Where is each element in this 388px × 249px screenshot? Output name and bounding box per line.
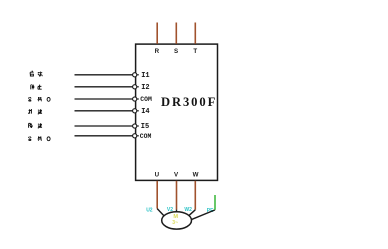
svg-text:I4: I4 (141, 108, 149, 116)
terminal COM (133, 97, 137, 101)
wire W output (194, 181, 196, 210)
wire input I1 (start) (75, 74, 133, 76)
wire R phase supply (156, 23, 158, 44)
label gong-gong-0 second (common) hand-drawn glyphs (28, 136, 50, 140)
svg-text:S: S (174, 48, 178, 55)
wire input COM2 (common) (75, 135, 133, 137)
wire motor lead W2 (189, 210, 195, 215)
terminal I1 (133, 73, 137, 77)
wire T phase supply (194, 23, 196, 44)
label jiang-su (speed down) hand-drawn glyphs (29, 123, 42, 128)
label qi-dong (start) hand-drawn glyphs (30, 71, 42, 76)
terminal I4 (133, 109, 137, 113)
label sheng-su (speed up) hand-drawn glyphs (28, 109, 42, 114)
svg-text:W: W (193, 172, 199, 179)
wire input I2 (stop) (75, 86, 133, 88)
label ting-zhi (stop) hand-drawn glyphs (31, 84, 42, 89)
wire PE green conductor (214, 195, 216, 210)
terminal I2 (133, 85, 137, 89)
wire input COM (common) (75, 98, 133, 100)
wire motor lead V2 (176, 210, 178, 213)
svg-text:U: U (155, 172, 160, 179)
motor M1 three-phase (162, 212, 192, 229)
wire V output (176, 181, 178, 210)
wire motor lead U2 (157, 209, 164, 216)
wire PE ground lead (191, 210, 215, 220)
terminal I5 (133, 124, 137, 128)
inverter U1 DR300F enclosure (136, 44, 218, 180)
svg-text:I2: I2 (141, 84, 149, 92)
terminal COM2 (133, 134, 137, 138)
svg-text:DR300F: DR300F (161, 95, 217, 109)
svg-text:U2: U2 (146, 208, 153, 214)
svg-text:I1: I1 (141, 72, 149, 80)
svg-text:COM: COM (140, 133, 152, 140)
svg-text:R: R (155, 48, 160, 55)
svg-text:W2: W2 (184, 207, 192, 213)
svg-text:V: V (174, 172, 179, 179)
wire U output (156, 181, 158, 209)
svg-text:COM: COM (140, 96, 152, 103)
svg-text:3~: 3~ (172, 220, 178, 226)
wire S phase supply (175, 23, 177, 44)
wire input I5 (speed down) (75, 125, 133, 127)
label gong-gong-0 (common) hand-drawn glyphs (28, 97, 50, 101)
svg-text:T: T (193, 48, 197, 55)
svg-text:I5: I5 (141, 123, 149, 131)
wire input I4 (speed up) (75, 110, 133, 112)
